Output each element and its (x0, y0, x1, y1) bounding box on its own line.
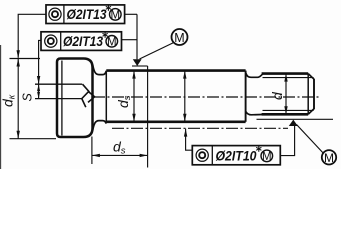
arrow up (183, 71, 186, 79)
datum triangle top (133, 59, 142, 66)
frame1 divider (63, 5, 65, 24)
common datum leader vertical (136, 14, 138, 59)
svg-text:S: S (21, 93, 35, 102)
frame2 concentricity symbol (45, 35, 57, 47)
svg-text:Ø2IT13: Ø2IT13 (67, 7, 107, 22)
dk top extension line (10, 58, 41, 60)
frame3 right leader (280, 126, 294, 156)
shaft left face (105, 71, 107, 122)
ds horizontal left extension (91, 137, 93, 165)
svg-text:M: M (324, 151, 334, 165)
head outline (57, 59, 93, 138)
head chamfer line (61, 61, 63, 136)
thread end line 1 (307, 74, 309, 115)
thread crest top (262, 72, 309, 75)
svg-text:Ø2IT13: Ø2IT13 (63, 34, 103, 49)
bottom circled M (322, 150, 336, 164)
thread root bottom (263, 109, 314, 111)
frame1 leader arrow (17, 50, 20, 58)
arrow down (183, 114, 186, 122)
frame3 leader (186, 129, 193, 151)
chamfer bottom (308, 109, 314, 115)
frame3 box (192, 146, 280, 165)
undercut bottom (93, 121, 107, 131)
ds vertical arrow down (132, 114, 135, 122)
datum shelf line (132, 65, 148, 67)
centerline (93, 96, 320, 98)
frame1 concentricity symbol (49, 8, 61, 20)
frame3 concentricity symbol (196, 149, 208, 161)
frame2 leader (39, 40, 41, 83)
chamfer top (308, 74, 314, 80)
d thread dimension line (285, 74, 287, 115)
frame2 divider (60, 32, 62, 51)
svg-text:d: d (269, 91, 285, 100)
leader to top circled M (140, 43, 174, 60)
top circled M (172, 29, 188, 45)
frame1 right leader (125, 13, 137, 15)
undercut top (93, 64, 107, 75)
frame2 box (41, 32, 122, 51)
svg-text:M: M (111, 10, 121, 22)
ds horizontal arrow left (92, 154, 100, 157)
dk arrow up (17, 59, 20, 67)
shaft right face (245, 71, 247, 122)
frame1 box (46, 5, 125, 24)
frame3 divider (211, 146, 213, 165)
frame3 M circle (261, 150, 273, 162)
thread end line 2 (313, 79, 315, 109)
frame1 leader (18, 14, 46, 58)
ds vertical arrow up (132, 71, 135, 79)
svg-text:M: M (174, 31, 184, 45)
break zigzag (82, 84, 89, 107)
frame2 right leader (122, 39, 138, 41)
ds horizontal dimension line (92, 154, 148, 156)
slot lower line (35, 98, 82, 100)
ds vertical dimension line (133, 71, 135, 122)
dk dimension line (17, 59, 19, 139)
unlabeled diameter dimension (184, 71, 186, 122)
frame3 leader arrow (184, 129, 187, 137)
thread root top (263, 77, 314, 79)
thread relief groove bottom (246, 111, 262, 114)
S arrow up (37, 84, 40, 91)
svg-text:M: M (262, 151, 272, 163)
dk arrow down (17, 131, 20, 139)
ds horizontal arrow right (140, 154, 148, 157)
scan edge line left (0, 45, 2, 169)
thread crest bottom (262, 113, 309, 116)
shaft top edge (106, 69, 245, 72)
thread relief groove top (246, 73, 263, 78)
frame2 leader arrow (37, 76, 40, 84)
shaft bottom edge (106, 121, 245, 124)
datum triangle bottom (289, 120, 298, 126)
datum line under thread (257, 118, 334, 120)
svg-text:M: M (107, 37, 117, 49)
frame1 M circle (110, 9, 122, 21)
lower datum axis dash-dot (112, 127, 288, 129)
svg-text:dк: dк (0, 94, 18, 107)
ds horizontal right extension (147, 66, 149, 168)
chevron (88, 91, 95, 102)
frame2 M circle (106, 36, 118, 48)
svg-text:ds: ds (113, 139, 126, 157)
dk bottom extension line (10, 138, 57, 140)
S dimension line (38, 84, 40, 98)
leader to bottom circled M (297, 125, 323, 153)
slot upper line (35, 83, 82, 85)
d arrow up (284, 74, 287, 82)
d arrow down (284, 106, 287, 114)
S arrow down (37, 92, 40, 99)
svg-text:Ø2IT10: Ø2IT10 (216, 148, 257, 163)
